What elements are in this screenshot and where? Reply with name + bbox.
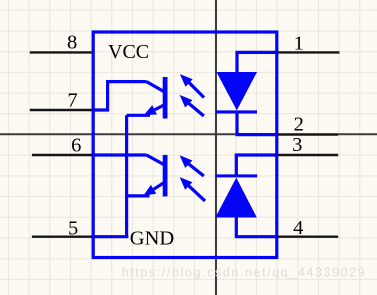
transistor Q1 collector diagonal <box>147 82 166 93</box>
svg-text:8: 8 <box>67 31 77 53</box>
sheet crosshair vertical axis <box>215 0 217 295</box>
LED D2 triangle (pointing up) <box>215 178 256 218</box>
wire pin3 to D2 cathode <box>236 155 277 175</box>
svg-text:2: 2 <box>294 114 304 136</box>
wire pin5 to emitter junction <box>91 235 128 238</box>
pin 7 wire <box>30 109 93 111</box>
light arrow shaft 4 <box>188 185 205 201</box>
light arrow head 4 <box>180 177 193 190</box>
wire emitters to pin5 (vertical) <box>125 115 128 236</box>
wire pin7 to Q1 collector <box>92 82 146 110</box>
wire D2 anode to pin4 <box>236 217 277 237</box>
light arrow shaft 2 <box>188 103 204 116</box>
pin 4 wire <box>277 235 338 237</box>
LED D1 triangle (anode top, pointing down) <box>217 72 258 110</box>
light arrow head 2 <box>180 95 193 108</box>
wire pin1 to D1 anode <box>237 52 277 72</box>
transistor Q1 emitter diagonal <box>155 105 165 110</box>
pin 5 wire (GND) <box>32 235 91 237</box>
LED D1 cathode bar <box>216 110 257 113</box>
svg-text:6: 6 <box>71 134 81 156</box>
svg-text:3: 3 <box>292 134 302 156</box>
transistor Q1 emitter horizontal wire <box>127 114 150 117</box>
light arrow head 3 <box>180 155 193 168</box>
LED D2 cathode bar <box>216 174 258 177</box>
pin 8 wire (VCC) <box>30 51 93 53</box>
svg-text:1: 1 <box>294 33 304 55</box>
svg-text:7: 7 <box>67 89 77 111</box>
svg-text:https://blog.csdn.net/qq_44339: https://blog.csdn.net/qq_44339029 <box>122 266 367 280</box>
transistor Q2 collector diagonal <box>147 155 166 165</box>
transistor Q2 emitter horizontal wire <box>127 194 150 197</box>
svg-text:GND: GND <box>130 228 174 250</box>
pin 1 wire <box>277 51 340 53</box>
sheet crosshair horizontal axis <box>0 133 377 135</box>
transistor Q2 emitter diagonal <box>154 182 165 189</box>
light arrow shaft 3 <box>188 164 204 176</box>
optocoupler U1 body outline <box>93 32 277 258</box>
wire pin6 to Q2 collector <box>92 153 146 156</box>
pin 3 wire <box>277 154 338 156</box>
transistor Q2 base bar <box>163 155 168 197</box>
transistor Q2 emitter arrowhead <box>143 185 156 196</box>
svg-text:5: 5 <box>68 217 78 239</box>
pin 6 wire <box>32 154 93 156</box>
svg-text:4: 4 <box>293 217 303 239</box>
svg-text:VCC: VCC <box>108 41 149 63</box>
light arrow shaft 1 <box>189 82 205 97</box>
wire D1 cathode to pin2 <box>237 113 277 135</box>
transistor Q1 emitter arrowhead <box>144 105 157 115</box>
pin 2 wire <box>277 133 338 135</box>
transistor Q1 base bar <box>163 77 168 119</box>
light arrow head 1 <box>180 74 193 87</box>
